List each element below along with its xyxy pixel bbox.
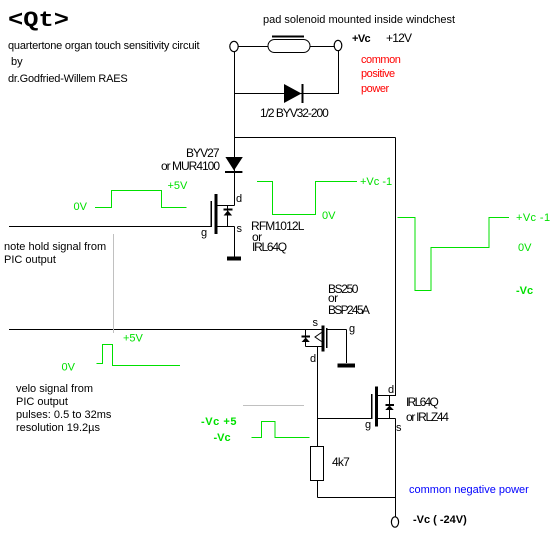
svg-text:d: d	[388, 384, 394, 396]
svg-text:s: s	[396, 422, 402, 434]
svg-text:resolution 19.2µs: resolution 19.2µs	[16, 422, 100, 434]
svg-text:or IRLZ44: or IRLZ44	[406, 410, 449, 424]
svg-text:dr.Godfried-Willem RAES: dr.Godfried-Willem RAES	[8, 73, 128, 85]
svg-text:+5V: +5V	[123, 333, 144, 345]
Q2 gate bar	[326, 328, 328, 348]
wire gate Q1 from PIC	[9, 226, 211, 228]
Q2 body branch wire	[305, 330, 307, 347]
gray guide line vertical	[113, 234, 115, 333]
ground under Q2 gate	[338, 364, 356, 368]
svg-text:0V: 0V	[322, 210, 336, 222]
terminal right	[334, 40, 342, 50]
svg-text:-Vc ( -24V): -Vc ( -24V)	[413, 514, 467, 526]
wire bottom horizontal	[318, 497, 396, 499]
svg-text:-Vc: -Vc	[214, 432, 231, 444]
wire left vertical main	[234, 52, 236, 206]
svg-text:<Qt>: <Qt>	[8, 8, 69, 33]
svg-text:g: g	[201, 227, 207, 239]
resistor R1 4k7	[311, 447, 324, 481]
waveform -Vc pulse	[252, 422, 310, 438]
terminal -Vc bottom	[391, 517, 398, 527]
svg-text:-Vc: -Vc	[516, 285, 533, 297]
wire right solenoid vertical	[338, 50, 340, 95]
svg-text:quartertone organ touch sensit: quartertone organ touch sensitivity circ…	[8, 40, 199, 52]
Q2 gate lead	[328, 329, 347, 331]
solenoid L1 core bar	[272, 36, 304, 38]
Q3 body diode wire	[389, 396, 391, 419]
svg-text:0V: 0V	[62, 362, 76, 374]
svg-text:4k7: 4k7	[332, 455, 350, 469]
wire Q3 source down	[395, 419, 397, 498]
svg-text:+Vc: +Vc	[352, 33, 371, 45]
Q3 drain lead	[378, 395, 396, 397]
svg-text:velo signal from: velo signal from	[16, 383, 93, 395]
svg-text:pad solenoid mounted inside w: pad solenoid mounted inside windchest	[263, 14, 455, 26]
Q1 source down wire	[234, 227, 236, 257]
svg-text:+5V: +5V	[168, 180, 189, 192]
svg-text:note hold signal from: note hold signal from	[4, 241, 106, 253]
Q1 gate bar	[211, 201, 213, 227]
transistor Q1 RFM1012L	[201, 193, 243, 257]
svg-text:pulses: 0.5 to 32ms: pulses: 0.5 to 32ms	[16, 409, 112, 421]
Q2 body diode	[302, 336, 311, 343]
ground under Q1	[227, 257, 241, 261]
svg-text:g: g	[349, 323, 355, 335]
svg-text:0V: 0V	[74, 201, 88, 213]
svg-text:IRL64Q: IRL64Q	[406, 395, 439, 409]
Q1 channel bar	[215, 194, 218, 234]
wire resistor bottom	[317, 481, 319, 498]
svg-text:g: g	[365, 419, 371, 431]
gray guide line horizontal	[243, 405, 304, 407]
wire Q3 gate horizontal	[318, 418, 372, 420]
terminal left	[230, 41, 238, 51]
svg-text:d: d	[310, 353, 316, 365]
svg-text:or MUR4100: or MUR4100	[161, 159, 220, 173]
svg-text:BYV27: BYV27	[186, 146, 220, 160]
svg-text:+Vc -1: +Vc -1	[360, 176, 392, 188]
svg-text:0V: 0V	[518, 242, 532, 254]
svg-text:d: d	[236, 193, 242, 205]
solenoid L1 body	[268, 40, 310, 53]
Q1 body diode	[224, 209, 233, 216]
Q1 body diode wire	[227, 206, 229, 227]
svg-text:power: power	[361, 83, 389, 95]
svg-text:BSP245A: BSP245A	[328, 303, 370, 317]
wire Q2 drain vertical	[317, 347, 319, 447]
svg-text:s: s	[313, 317, 319, 329]
Q3 source lead	[378, 418, 396, 420]
waveform Q1 drain	[257, 182, 357, 215]
svg-text:1/2 BYV32-200: 1/2 BYV32-200	[260, 106, 329, 120]
diode D1 1/2 BYV32-200	[284, 84, 304, 103]
waveform output right	[398, 218, 510, 291]
Q3 body diode	[385, 404, 394, 410]
svg-text:by: by	[11, 56, 23, 68]
Q2 drain lead	[306, 346, 322, 348]
wire right rail vertical	[395, 138, 397, 397]
svg-text:+12V: +12V	[386, 31, 412, 45]
Q2 gate down wire	[346, 330, 348, 364]
svg-text:-Vc +5: -Vc +5	[201, 416, 237, 428]
svg-text:common negative power: common negative power	[409, 484, 529, 496]
wire source Q2 from PIC	[9, 329, 322, 331]
wire junction horizontal to right rail	[235, 137, 396, 139]
transistor Q3 IRL64Q	[365, 384, 402, 434]
Q1 drain lead	[218, 205, 235, 207]
svg-text:positive: positive	[361, 68, 395, 80]
svg-text:+Vc -1: +Vc -1	[516, 212, 551, 224]
svg-text:IRL64Q: IRL64Q	[252, 240, 287, 254]
Q3 gate bar	[371, 394, 373, 419]
svg-text:PIC output: PIC output	[4, 254, 56, 266]
transistor Q2 BS250	[302, 317, 356, 365]
svg-text:s: s	[237, 223, 243, 235]
svg-text:common: common	[361, 54, 401, 66]
waveform velo input	[97, 345, 181, 366]
Q3 channel bar	[375, 387, 378, 427]
Q1 source lead	[218, 226, 235, 228]
wire diode D1 horizontal	[235, 93, 339, 95]
waveform note hold input	[95, 191, 187, 208]
wire solenoid to right terminal	[310, 46, 335, 48]
diode D2 BYV27	[225, 157, 243, 173]
Q2 arrow	[315, 333, 322, 342]
wire to -Vc terminal	[395, 498, 397, 518]
svg-text:PIC output: PIC output	[16, 396, 68, 408]
wire left terminal to solenoid	[238, 46, 268, 48]
Q2 channel bar	[322, 326, 325, 352]
